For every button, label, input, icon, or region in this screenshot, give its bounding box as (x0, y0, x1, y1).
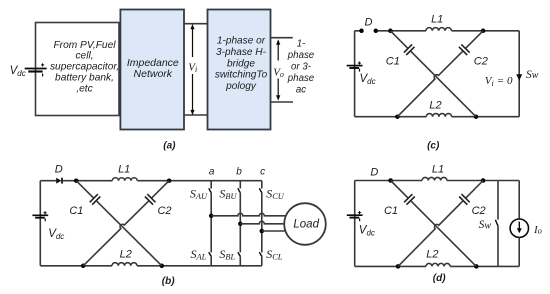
svg-text:cell,: cell, (75, 51, 93, 62)
svg-text:Load: Load (293, 218, 319, 230)
svg-text:battery bank,: battery bank, (55, 73, 114, 84)
svg-text:C2: C2 (472, 205, 486, 217)
svg-text:phase: phase (287, 73, 315, 84)
svg-text:c: c (260, 167, 265, 178)
svg-text:C1: C1 (69, 205, 83, 217)
svg-text:C2: C2 (157, 205, 171, 217)
svg-text:1-phase or: 1-phase or (217, 36, 266, 47)
svg-text:= 0: = 0 (497, 75, 513, 87)
svg-text:,etc: ,etc (76, 83, 92, 94)
svg-text:C2: C2 (474, 55, 488, 67)
svg-text:L1: L1 (431, 14, 443, 26)
svg-text:a: a (209, 167, 215, 178)
svg-text:D: D (370, 166, 378, 178)
svg-text:bridge: bridge (227, 58, 255, 69)
svg-text:Sw: Sw (526, 69, 539, 81)
svg-text:L1: L1 (118, 164, 130, 176)
svg-text:(b): (b) (162, 276, 175, 287)
svg-text:C1: C1 (384, 205, 398, 217)
svg-text:L2: L2 (426, 249, 438, 261)
svg-text:pology: pology (225, 81, 257, 92)
svg-text:Network: Network (134, 68, 173, 80)
svg-text:phase: phase (287, 50, 315, 61)
svg-text:b: b (236, 167, 242, 178)
svg-text:L2: L2 (120, 249, 132, 261)
svg-text:From PV,Fuel: From PV,Fuel (53, 40, 116, 51)
svg-text:ac: ac (296, 85, 306, 96)
svg-text:L1: L1 (432, 163, 444, 175)
svg-text:D: D (55, 164, 63, 176)
svg-text:switchingTo: switchingTo (215, 70, 268, 81)
svg-text:supercapacitor,: supercapacitor, (50, 62, 119, 73)
svg-text:3-phase H-: 3-phase H- (216, 47, 267, 58)
svg-text:C1: C1 (386, 55, 400, 67)
svg-text:(d): (d) (433, 273, 446, 284)
svg-text:1-: 1- (297, 39, 306, 50)
svg-text:or 3-: or 3- (291, 62, 312, 73)
svg-text:(c): (c) (427, 141, 440, 152)
svg-text:Io: Io (533, 224, 542, 236)
svg-text:Sw: Sw (479, 219, 492, 231)
svg-text:D: D (365, 16, 373, 28)
svg-text:L2: L2 (429, 99, 441, 111)
svg-text:(a): (a) (163, 140, 176, 151)
